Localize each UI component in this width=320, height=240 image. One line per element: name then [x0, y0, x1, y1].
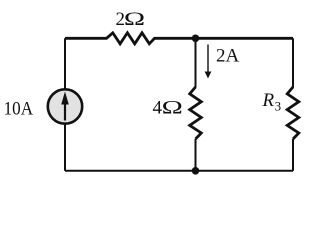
svg-text:Ω: Ω: [124, 9, 145, 30]
svg-text:Ω: Ω: [162, 97, 183, 118]
svg-text:2A: 2A: [216, 46, 240, 67]
svg-text:3: 3: [275, 98, 282, 113]
svg-text:R: R: [262, 90, 275, 111]
svg-text:10A: 10A: [4, 98, 33, 119]
